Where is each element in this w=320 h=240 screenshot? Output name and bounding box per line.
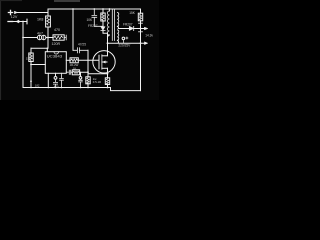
labels <box>11 11 154 89</box>
top rail <box>48 8 141 10</box>
junction out- <box>140 42 142 44</box>
transformer secondary lower <box>117 30 118 41</box>
svg-text:1K: 1K <box>73 66 77 70</box>
svg-text:12V: 12V <box>11 15 18 19</box>
resistor R7 sense <box>105 78 109 85</box>
junction out+ <box>140 28 142 30</box>
arrow body <box>102 61 107 63</box>
cap C2 plate <box>64 35 66 40</box>
IC U1 box <box>45 52 66 74</box>
svg-text:0.5-1R: 0.5-1R <box>93 80 101 84</box>
wire to 15K <box>30 48 32 53</box>
svg-text:4n7: 4n7 <box>37 31 43 35</box>
ground loop <box>140 43 142 90</box>
resistor R4 gate <box>70 58 78 63</box>
svg-text:47/25: 47/25 <box>78 42 86 46</box>
rail junction dots <box>30 87 32 89</box>
cap C5 220/25V <box>122 37 125 40</box>
resistor R3 120R <box>53 35 64 40</box>
resistor R9 15K <box>138 13 142 21</box>
diode D3 <box>129 26 133 30</box>
svg-text:470: 470 <box>54 28 60 32</box>
drain stub <box>102 55 108 57</box>
svg-text:220/25V: 220/25V <box>118 44 131 48</box>
source stub <box>102 67 108 69</box>
output diode D3 wire <box>118 28 129 30</box>
snubber resistor R8 <box>102 8 104 10</box>
resistor R2 15K <box>29 53 33 62</box>
resistor R1 1K8 <box>46 16 51 27</box>
output arrow minus <box>145 42 148 45</box>
transformer T1 primary <box>109 8 111 10</box>
junction pin2 <box>30 64 32 66</box>
svg-text:UC3843: UC3843 <box>47 54 63 58</box>
IC bottom pin 1 <box>47 73 49 87</box>
minus arrow <box>16 20 19 23</box>
plus arrow <box>15 11 18 14</box>
svg-text:14.3v: 14.3v <box>145 34 153 38</box>
snubber cap C4 <box>93 8 95 10</box>
minus terminal <box>8 21 13 23</box>
snubber diode D2 <box>101 27 105 31</box>
cut-off title text <box>54 0 80 2</box>
wire node A down <box>31 38 48 49</box>
bar lower <box>139 31 143 33</box>
IC lower right pin row <box>66 70 72 74</box>
wire down x88 <box>87 50 89 72</box>
svg-text:470: 470 <box>54 84 59 88</box>
svg-text:15K: 15K <box>129 11 136 15</box>
svg-text:120R: 120R <box>52 42 61 46</box>
wire corner to top rail <box>47 9 49 13</box>
MOSFET Q1 circle <box>93 51 115 73</box>
VCC drop wire <box>72 9 74 50</box>
junction lower <box>30 80 32 82</box>
wire IC top pin <box>46 48 48 51</box>
node A junction <box>47 37 49 39</box>
wire 120R row <box>48 37 53 39</box>
wire IC left pin <box>31 64 45 66</box>
gate bar <box>98 55 100 68</box>
zener pair D1 <box>37 35 41 39</box>
terminal bar <box>26 19 28 24</box>
wire 15K to pin <box>30 62 32 88</box>
svg-text:FR207: FR207 <box>88 24 98 28</box>
left rail <box>22 22 24 88</box>
resistor R5 <box>72 70 79 75</box>
resistor R6 <box>87 74 89 88</box>
wire minus row <box>13 21 27 23</box>
transformer core <box>112 10 114 41</box>
ground rail <box>23 88 141 91</box>
wire +12V to corner <box>17 12 48 14</box>
output arrow plus <box>145 27 148 30</box>
output rail vertical <box>140 9 142 13</box>
svg-text:182: 182 <box>35 83 40 87</box>
channel bar <box>101 55 103 69</box>
svg-text:FR207: FR207 <box>123 23 133 27</box>
bar upper <box>139 22 143 24</box>
wire gate <box>78 59 99 61</box>
wire node A horizontal <box>23 37 48 39</box>
svg-text:10K: 10K <box>87 18 94 22</box>
wire row to source node <box>80 72 108 74</box>
svg-text:15K: 15K <box>26 57 31 61</box>
IC bottom pin 3 cap <box>60 73 64 87</box>
background <box>0 0 159 100</box>
drain line <box>107 33 109 56</box>
comp A stub <box>80 72 82 76</box>
IC right pin gate row <box>66 59 70 61</box>
IC bottom pin 2 cap <box>55 73 57 76</box>
svg-text:1K8: 1K8 <box>37 17 43 21</box>
plus terminal <box>8 10 12 14</box>
transformer secondary upper <box>117 12 118 26</box>
cap C3 47/25 <box>73 48 88 53</box>
drain to output cap wire <box>108 42 145 44</box>
source line <box>107 68 109 78</box>
resistor R1 leads <box>47 13 49 38</box>
